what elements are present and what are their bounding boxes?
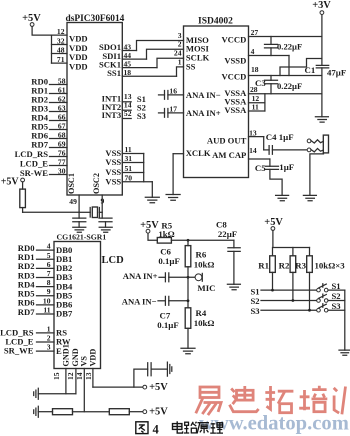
pin 18 VCCD (221, 65, 321, 81)
pin 52 INT3 / node S3 (102, 109, 146, 121)
svg-text:INT3: INT3 (102, 110, 122, 120)
svg-text:18: 18 (251, 65, 259, 74)
caption: hanzi LU (circuit) (184, 422, 197, 433)
svg-text:10kΩ×3: 10kΩ×3 (315, 261, 346, 271)
pin 51 VSS (105, 164, 143, 177)
svg-text:XCLK: XCLK (186, 148, 211, 158)
svg-text:49: 49 (69, 197, 77, 206)
svg-text:+3V: +3V (312, 0, 331, 11)
svg-text:VSS: VSS (105, 157, 121, 167)
svg-text:AUD OUT: AUD OUT (207, 136, 247, 146)
pin 2 MOSI (178, 40, 210, 54)
svg-text:AM CAP: AM CAP (212, 150, 246, 160)
resistor R4 10k (185, 308, 214, 349)
svg-text:OSC1: OSC1 (67, 173, 76, 194)
pin 3 MISO (178, 31, 209, 45)
+5V terminal (mic bias) (140, 220, 159, 233)
wire SDO1 to MISO (137, 41, 184, 51)
watermark: hanzi PEI (299, 386, 327, 412)
svg-text:RD7: RD7 (31, 140, 48, 150)
pin 49 OSC1 (67, 173, 79, 218)
ground (sideways, LCD cap) (167, 362, 171, 376)
capacitor (OSC1 load) (73, 218, 86, 227)
svg-text:+5V: +5V (149, 407, 168, 418)
svg-text:C6: C6 (160, 246, 171, 256)
headphone jack J1 (307, 135, 328, 153)
+3V rail lower segment to ground (321, 68, 323, 117)
pin 63 RD3 (31, 104, 67, 114)
pin 7 DB3 (18, 269, 72, 282)
wire net S1 row (261, 289, 317, 291)
svg-text:www.edatop.com: www.edatop.com (199, 412, 349, 434)
pin 32 VDD (52, 37, 88, 54)
wire SCK1 to SCLK (157, 58, 184, 67)
pin 28 VSSA (224, 85, 322, 98)
capacitor C4 1uF (audio coupling) (264, 132, 307, 154)
wire R6 to mic node (187, 267, 189, 308)
LCD module U3 CG1621-SGR1 body (54, 233, 124, 369)
wire XCLK to ground (172, 154, 174, 195)
svg-text:63: 63 (58, 104, 66, 113)
svg-text:2: 2 (178, 40, 182, 49)
svg-text:8: 8 (47, 278, 51, 287)
VSS bus bracket (143, 154, 145, 182)
pin 11 VSSA (224, 103, 265, 116)
pin 6 DB2 (18, 260, 72, 273)
svg-text:10kΩ: 10kΩ (194, 318, 215, 328)
label C7 (157, 311, 178, 330)
svg-text:dsPIC30F6014: dsPIC30F6014 (66, 14, 125, 24)
svg-text:14: 14 (249, 146, 257, 155)
svg-text:11: 11 (43, 306, 50, 315)
voice chip U2 ISD4002 body (184, 17, 249, 178)
svg-text:69: 69 (58, 140, 66, 149)
pin 11 VSS (105, 145, 143, 158)
svg-text:24: 24 (174, 49, 182, 58)
pin 48 VDD (52, 46, 88, 63)
resistor (contrast upper) (53, 409, 73, 415)
svg-text:S2: S2 (332, 291, 341, 301)
pin 15 GND1 (bottom) (52, 344, 71, 393)
resistor R5 1k (157, 220, 174, 243)
capacitor C6 (ANA IN+ coupling) (159, 273, 195, 282)
wire VSS to ground (151, 182, 153, 198)
svg-text:12: 12 (66, 372, 75, 380)
svg-text:3: 3 (47, 343, 51, 352)
ground (C8) (227, 284, 240, 289)
pin 17 ANA IN+ (169, 104, 220, 118)
+5V pull-up terminal (left) (1, 177, 25, 188)
pin 58 RD0 (31, 77, 67, 87)
pin 70 VSS (105, 173, 152, 186)
ground (dsPIC VSS) (145, 197, 159, 203)
wire switches common to ground (344, 290, 346, 350)
svg-text:S2: S2 (251, 296, 260, 306)
svg-text:LCD_RS: LCD_RS (15, 149, 49, 159)
svg-text:77: 77 (58, 158, 66, 167)
pin 11 DB7 (18, 306, 73, 319)
+3V rail (321, 15, 323, 66)
caption: hanzi DIAN (electric) (173, 421, 183, 433)
svg-text:47µF: 47µF (327, 67, 346, 77)
pin 13 VDD (bottom) (84, 349, 98, 387)
svg-text:R3: R3 (295, 261, 306, 271)
svg-text:VCCD: VCCD (221, 35, 246, 45)
caption: hanzi LI (theory) (210, 423, 223, 433)
svg-text:22µF: 22µF (218, 229, 237, 239)
pin XCLK (173, 148, 211, 158)
pin 12 VSSA (224, 94, 265, 107)
pin 43 SDO1 (99, 42, 136, 52)
svg-text:1µF: 1µF (279, 162, 294, 172)
resistor R6 10k (185, 240, 214, 269)
pin 61 RD1 (31, 86, 67, 96)
pin 66 RD4 (31, 113, 67, 123)
svg-text:17: 17 (169, 104, 177, 113)
wire +5V to R5 (148, 233, 157, 240)
capacitor C8 22uF (216, 220, 240, 285)
svg-text:4: 4 (47, 242, 51, 251)
+5V terminal (keys) (264, 217, 283, 230)
microphone MIC (195, 273, 215, 292)
svg-text:15: 15 (52, 372, 61, 380)
label C6 (158, 246, 179, 266)
resistor R1 10k (258, 248, 275, 291)
pin 13 INT1 / node S1 (102, 92, 146, 104)
svg-text:C5: C5 (255, 163, 266, 173)
svg-text:C1: C1 (305, 65, 316, 75)
svg-text:70: 70 (125, 173, 133, 182)
pin 14 VS (bottom) (75, 356, 89, 412)
svg-text:18: 18 (124, 68, 132, 77)
svg-text:VSSD: VSSD (224, 55, 246, 65)
svg-text:CG1621-SGR1: CG1621-SGR1 (57, 233, 107, 242)
wire resistor to VS node (73, 411, 110, 413)
svg-text:13: 13 (249, 128, 257, 137)
pin 9 OSC2 (92, 173, 105, 218)
svg-text:GND1: GND1 (62, 344, 71, 366)
svg-text:VDD: VDD (89, 349, 98, 367)
wire VSSD down to ground line (288, 56, 290, 76)
capacitor C2 0.22uF (VCCD-VSSD) (265, 37, 303, 56)
caption: hanzi YUAN (principle) (197, 423, 209, 434)
capacitor C5 1uF (255, 159, 294, 195)
pin 44 SDI1 (102, 51, 146, 61)
svg-text:SS1: SS1 (107, 68, 121, 78)
switch S3 (317, 301, 345, 312)
node (R3-S3) (308, 309, 311, 312)
svg-text:67: 67 (58, 122, 66, 131)
svg-text:DB7: DB7 (56, 309, 73, 319)
ground (R4) (181, 348, 195, 353)
svg-text:2: 2 (47, 334, 51, 343)
svg-text:11: 11 (125, 145, 132, 154)
ground (+3V rail / VSSA) (315, 117, 328, 122)
svg-text:SR_WE: SR_WE (4, 346, 34, 356)
svg-text:ANA IN−: ANA IN− (186, 90, 221, 100)
switch S1 (317, 281, 345, 292)
svg-text:S3: S3 (251, 306, 260, 316)
wire cap to sideways ground (151, 368, 167, 370)
capacitor (LCD decoupling) (148, 363, 151, 376)
svg-text:S1: S1 (251, 287, 260, 297)
svg-text:OSC2: OSC2 (92, 173, 101, 194)
pin 14 AM CAP (212, 146, 270, 160)
svg-text:0.1µF: 0.1µF (157, 320, 178, 330)
svg-text:+5V: +5V (149, 382, 168, 393)
pin 31 VSS (105, 154, 143, 167)
wire jack sleeve to ground (310, 153, 324, 196)
svg-text:ISD4002: ISD4002 (198, 17, 233, 27)
wire net S2 row (261, 300, 317, 302)
pin 76 LCD_RS (15, 149, 67, 160)
pin 12 VDD (52, 27, 88, 44)
wire contrast network (38, 411, 52, 413)
capacitor (ANA IN+ coupling) (159, 109, 184, 118)
ground (OSC1 cap) (73, 227, 86, 232)
wire net S3 row (261, 309, 317, 311)
pin 1 RS (0, 324, 67, 337)
svg-text:30: 30 (58, 167, 66, 176)
pin 2 RW (5, 334, 71, 347)
svg-text:S3: S3 (137, 111, 146, 121)
wire +5V to resistor bus (273, 230, 310, 247)
pin 18 SS1 (107, 68, 176, 78)
node (mic junction) (187, 276, 190, 279)
wire branch to decoupling cap (134, 369, 148, 387)
pin 8 DB4 (18, 278, 73, 291)
pin 62 RD2 (31, 95, 67, 105)
pin 71 VDD (52, 55, 88, 72)
svg-text:C4 1µF: C4 1µF (266, 132, 294, 142)
svg-text:66: 66 (58, 113, 66, 122)
VDD bus bracket (51, 35, 53, 63)
svg-text:71: 71 (57, 55, 65, 64)
+5V supply terminal top-left (22, 13, 41, 26)
MCU U1 dsPIC30F6014 body (66, 14, 125, 195)
svg-text:VS: VS (80, 356, 89, 367)
wire R5 to C8 (171, 239, 234, 241)
pin 10 DB6 (18, 296, 73, 309)
svg-text:ANA IN+: ANA IN+ (186, 108, 221, 118)
watermark: hanzi YI (196, 387, 221, 415)
ground (C5) (276, 195, 289, 200)
svg-text:VDD: VDD (69, 52, 88, 62)
ground (sideways, LCD GND) (34, 388, 39, 399)
pin 4 DB0 (18, 242, 72, 255)
svg-text:VSS: VSS (105, 176, 121, 186)
svg-text:0.22µF: 0.22µF (277, 81, 302, 91)
svg-text:32: 32 (57, 37, 65, 46)
pin 12 GND (bottom) (66, 348, 80, 393)
svg-text:VCCD: VCCD (221, 72, 246, 82)
svg-text:0.1µF: 0.1µF (158, 256, 179, 266)
wire VCCD staircase to +3V above C1 (280, 59, 322, 76)
svg-text:28: 28 (250, 85, 258, 94)
pin 1 SS (178, 58, 196, 72)
svg-text:52: 52 (124, 109, 132, 118)
svg-text:R6: R6 (196, 249, 207, 259)
pin 4 VSSD (224, 47, 289, 66)
svg-text:10: 10 (43, 296, 51, 305)
resistor (contrast lower) (109, 409, 129, 415)
svg-text:76: 76 (58, 149, 66, 158)
svg-text:10kΩ: 10kΩ (194, 260, 215, 270)
svg-text:R1: R1 (258, 261, 269, 271)
VSSA bus bracket (264, 94, 266, 111)
svg-text:VSSA: VSSA (224, 105, 247, 115)
svg-text:+5V: +5V (140, 220, 159, 231)
pin 14 INT2 / node S2 (102, 101, 146, 113)
capacitor (ANA IN- coupling) (159, 91, 184, 100)
svg-text:3: 3 (178, 31, 182, 40)
svg-text:68: 68 (58, 131, 66, 140)
svg-text:RD7: RD7 (18, 307, 35, 317)
resistor R3 10k (295, 248, 312, 311)
resistor R2 10k (279, 248, 296, 301)
pin 5 DB1 (18, 251, 72, 264)
svg-text:51: 51 (125, 164, 133, 173)
pin 77 LCD_E (20, 158, 67, 169)
svg-text:27: 27 (251, 28, 259, 37)
switch S2 (317, 291, 345, 302)
pin 3 E (4, 343, 62, 356)
watermark: hanzi DI (230, 386, 259, 412)
svg-text:R4: R4 (196, 308, 207, 318)
svg-text:9: 9 (47, 287, 51, 296)
pin 45 SCK1 (99, 59, 157, 69)
ground (switches) (339, 350, 350, 355)
pin 24 SCLK (174, 49, 210, 63)
pin 68 RD6 (31, 131, 67, 141)
svg-text:ANA IN+: ANA IN+ (123, 271, 158, 281)
svg-text:31: 31 (125, 154, 133, 163)
wire pull-up to OSC1 node (23, 211, 80, 213)
svg-text:R2: R2 (279, 261, 290, 271)
svg-text:LCD_E: LCD_E (20, 159, 48, 169)
svg-text:5: 5 (47, 251, 51, 260)
+5V terminal (contrast) (143, 407, 168, 418)
svg-text:+5V: +5V (1, 177, 20, 188)
capacitor C1 47uF (305, 65, 347, 77)
svg-text:13: 13 (84, 372, 93, 380)
+3V supply terminal (312, 0, 331, 14)
svg-text:12: 12 (57, 27, 65, 36)
svg-text:4: 4 (251, 47, 255, 56)
svg-text:7: 7 (47, 269, 51, 278)
svg-text:62: 62 (58, 95, 66, 104)
pin 13 AUD OUT (207, 128, 264, 145)
svg-text:MIC: MIC (197, 283, 215, 293)
wire VDD to +5V (93, 386, 143, 388)
ground (sideways, contrast) (34, 406, 39, 417)
node (R6 tap) (187, 239, 190, 242)
pin 9 DB5 (18, 287, 72, 300)
watermark: hanzi TUO (265, 386, 293, 413)
wire +5V to VDD bus (32, 27, 51, 36)
ground (OSC2 cap) (99, 227, 112, 232)
node (R2-S2) (292, 299, 295, 302)
svg-text:1: 1 (47, 324, 51, 333)
resistor (pull-up, unlabeled) (20, 182, 26, 212)
watermark: hanzi XUN (334, 387, 350, 416)
ground (jack) (303, 195, 316, 200)
svg-text:S3: S3 (332, 301, 341, 311)
pin 27 VCCD (221, 28, 321, 45)
svg-text:ANA IN−: ANA IN− (122, 296, 157, 306)
wire LCD GND pins to ground (38, 393, 76, 395)
pin 67 RD5 (31, 122, 67, 132)
pin 16 ANA IN- (169, 86, 220, 100)
caption: hanzi TU (figure) (136, 422, 148, 434)
pin 69 RD7 (31, 140, 67, 150)
svg-text:0.22µF: 0.22µF (277, 41, 302, 51)
svg-text:SR-WE: SR-WE (20, 168, 48, 178)
svg-text:11: 11 (252, 103, 259, 112)
svg-text:16: 16 (169, 86, 177, 95)
ground (XCLK) (166, 195, 180, 201)
svg-text:48: 48 (57, 46, 65, 55)
node (R1-S1) (271, 289, 274, 292)
wire SDI1 to MOSI (147, 49, 184, 59)
wire SS1 to SS (177, 67, 184, 76)
node (ANA IN- junction) (187, 299, 190, 302)
svg-text:VDD: VDD (69, 62, 88, 72)
crystal Y1 (79, 207, 102, 218)
wire resistor to +5V (129, 411, 143, 413)
+5V terminal (LCD VDD) (143, 382, 168, 393)
svg-text:1: 1 (178, 58, 182, 67)
svg-text:6: 6 (47, 260, 51, 269)
svg-text:LCD: LCD (102, 255, 125, 266)
svg-text:58: 58 (58, 77, 66, 86)
capacitor C3 0.22uF (VCCD-VSSA) (255, 76, 302, 94)
capacitor (OSC2 load) (99, 218, 112, 227)
svg-text:61: 61 (58, 86, 66, 95)
svg-text:14: 14 (75, 372, 84, 380)
svg-text:4: 4 (153, 423, 160, 436)
pin 30 SR-WE (20, 167, 67, 179)
svg-text:SS: SS (186, 61, 196, 71)
capacitor C7 (ANA IN- coupling) (158, 296, 188, 305)
